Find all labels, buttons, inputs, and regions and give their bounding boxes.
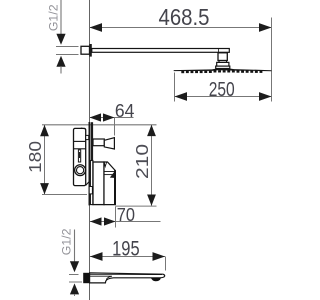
extension line arm bottom (56, 54, 79, 56)
arrow left 468.5 (90, 23, 103, 32)
arrow right 64 (103, 113, 115, 121)
svg-text:G1/2: G1/2 (59, 228, 73, 255)
extension line 70 right (115, 207, 117, 228)
valve circle outer (75, 165, 86, 176)
diverter knob (104, 138, 114, 149)
wall line (89, 0, 91, 300)
valve upper trim dark bar (91, 122, 94, 160)
arrow down 210 (147, 195, 156, 206)
extension line 180 bottom (42, 194, 87, 196)
dimension line 250 (175, 96, 272, 98)
head connector piece 1 (218, 53, 227, 61)
arrow right 70 (104, 217, 116, 225)
dimension line G1/2 top upper segment (60, 0, 62, 35)
diverter stem (93, 139, 104, 146)
arrow left 250 (175, 92, 188, 101)
arrow left 64 (90, 113, 102, 121)
extension line arm top (56, 46, 79, 48)
extension line 195 right (165, 257, 167, 271)
arrow up G1/2 top (56, 56, 65, 67)
dimension line 195 (90, 256, 165, 258)
shower head nozzles (181, 70, 262, 73)
handle right edge thick (114, 171, 116, 205)
shared extension line top of valve (42, 124, 157, 126)
dimension line G1/2 top lower segment (60, 66, 62, 73)
extension line right of 468.5 and 250 (271, 18, 273, 102)
valve fitting step (81, 127, 86, 130)
arm wall plate dark (89, 44, 92, 57)
handle detail wedge (110, 170, 116, 178)
valve inlet stub (86, 135, 89, 139)
arrow down G1/2 top (56, 34, 65, 45)
svg-text:G1/2: G1/2 (47, 4, 61, 31)
valve bottom right diagonal (86, 182, 90, 186)
valve body joint upper (74, 140, 86, 142)
shower arm (92, 49, 230, 53)
arm joint line (217, 49, 219, 53)
spout mid inner line (90, 276, 112, 279)
handle lever notch (104, 162, 106, 166)
arrow left 70 (90, 217, 102, 225)
valve slot pin (79, 152, 81, 158)
dimension line G1/2 bottom upper segment (74, 230, 76, 263)
svg-text:250: 250 (209, 79, 235, 101)
dimension line 64 (90, 117, 134, 119)
valve bottom outlet (89, 187, 92, 194)
dimension line G1/2 bottom lower segment (74, 294, 76, 296)
svg-text:64: 64 (115, 100, 135, 121)
spout top inner line (90, 274, 162, 276)
valve slot (78, 150, 80, 162)
head connector collar (219, 61, 227, 63)
extension line 210 bottom (116, 205, 157, 207)
svg-text:210: 210 (132, 144, 152, 179)
svg-text:195: 195 (112, 237, 140, 260)
dimension line 70 (90, 221, 161, 223)
spout aerator (151, 278, 161, 282)
arm wall flange square (81, 46, 90, 54)
valve rough-in body (74, 128, 86, 185)
dimension line 180 (44, 125, 46, 194)
extension line spout inlet bottom (69, 281, 82, 283)
extension line 64 right (114, 118, 116, 136)
head connector base (216, 66, 230, 68)
spout inlet block (83, 273, 89, 283)
arrow up G1/2 bottom (70, 283, 79, 294)
arrow up 180 (40, 125, 49, 136)
valve circle inner (77, 167, 84, 174)
svg-text:70: 70 (117, 204, 135, 225)
handle detail line 2 (104, 174, 115, 176)
svg-text:468.5: 468.5 (159, 4, 210, 30)
valve body joint lower (74, 148, 86, 150)
dimension line 468.5 (90, 27, 272, 29)
handle base (93, 162, 104, 205)
arrow left 195 (90, 252, 103, 261)
handle detail line 1 (104, 171, 115, 173)
extension line left of 250 (174, 73, 176, 102)
arrow right 468.5 (259, 23, 272, 32)
arrow up 210 (147, 125, 156, 136)
arrow right 195 (153, 252, 166, 261)
valve escutcheon dark bar at wall (89, 122, 91, 205)
extension line spout inlet top (69, 274, 79, 276)
arrow right 250 (259, 92, 272, 101)
arrow down 180 (40, 183, 49, 194)
head connector piece 3 (217, 62, 229, 66)
handle lever body (104, 162, 115, 205)
valve lower trim plate (90, 161, 93, 205)
svg-text:180: 180 (25, 141, 45, 173)
dimension line 210 (151, 125, 153, 206)
spout body (90, 273, 165, 283)
arrow down G1/2 bottom (70, 261, 79, 272)
shower head plate (174, 68, 272, 71)
